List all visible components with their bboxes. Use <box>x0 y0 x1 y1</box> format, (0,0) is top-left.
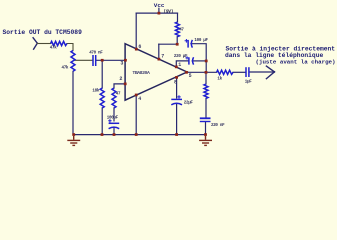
svg-text:47k: 47k <box>50 46 57 51</box>
svg-text:1: 1 <box>178 62 181 68</box>
svg-text:3: 3 <box>120 60 123 66</box>
svg-text:22µF: 22µF <box>184 102 194 106</box>
svg-text:1µF: 1µF <box>245 81 252 85</box>
svg-text:220 µF: 220 µF <box>174 55 188 59</box>
svg-text:47: 47 <box>116 93 121 97</box>
svg-text:5: 5 <box>189 73 192 79</box>
svg-text:100 µF: 100 µF <box>194 39 208 43</box>
svg-text:TBA820A: TBA820A <box>132 70 150 76</box>
svg-text:8: 8 <box>174 80 177 86</box>
svg-text:18k: 18k <box>92 89 99 94</box>
svg-text:(juste avant la charge): (juste avant la charge) <box>256 58 336 65</box>
svg-text:6: 6 <box>138 44 141 50</box>
svg-text:1k: 1k <box>217 77 222 82</box>
svg-text:(9V): (9V) <box>163 9 173 15</box>
svg-text:470 nF: 470 nF <box>89 52 103 56</box>
svg-text:Vcc: Vcc <box>154 2 165 9</box>
svg-text:47: 47 <box>179 29 184 33</box>
svg-text:220 nF: 220 nF <box>211 124 225 128</box>
svg-text:2: 2 <box>119 76 122 82</box>
svg-text:4: 4 <box>138 96 141 102</box>
svg-text:Sortie OUT du TCM5089: Sortie OUT du TCM5089 <box>3 29 83 36</box>
svg-text:100µF: 100µF <box>107 117 119 121</box>
svg-text:47k: 47k <box>62 65 69 70</box>
svg-text:7: 7 <box>161 54 164 60</box>
